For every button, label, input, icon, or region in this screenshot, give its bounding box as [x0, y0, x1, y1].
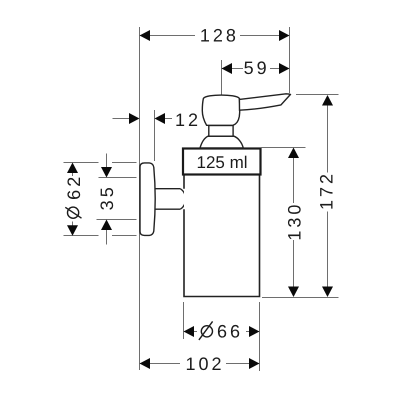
svg-text:128: 128 [200, 25, 239, 45]
dimension 130 [262, 148, 306, 298]
pump neck [209, 126, 233, 137]
svg-text:172: 172 [317, 171, 337, 210]
pump bulb [202, 95, 239, 125]
svg-text:62: 62 [64, 174, 84, 200]
pump skirt [200, 136, 243, 148]
svg-text:59: 59 [244, 58, 270, 78]
svg-text:102: 102 [185, 354, 224, 374]
svg-text:12: 12 [175, 110, 201, 130]
wall plate [140, 163, 155, 236]
svg-text:35: 35 [97, 184, 117, 210]
svg-text:130: 130 [285, 202, 305, 241]
dimension 12 [113, 110, 202, 161]
dimension 128 [140, 25, 290, 45]
dimension diameter 62 [64, 163, 137, 236]
wire [139, 27, 141, 370]
dimension 172 [262, 95, 339, 298]
svg-text:125 ml: 125 ml [196, 153, 247, 172]
dimension 102 [140, 354, 260, 374]
collar 125 ml [183, 149, 261, 175]
wire [289, 27, 291, 93]
dimension 59 [222, 58, 290, 95]
dimension 35 [97, 154, 137, 245]
bottle body [184, 175, 260, 297]
mounting arm [155, 189, 186, 210]
pump lever / spout [239, 94, 290, 110]
dimension diameter 66 [184, 302, 260, 371]
svg-text:66: 66 [217, 322, 243, 342]
